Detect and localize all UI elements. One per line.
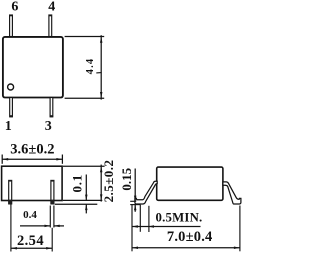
dimension 0.5MIN line and arrows [132,225,201,228]
lead right tip (front view) [51,200,55,205]
dimension 7.0±0.4 extension lines [132,205,240,252]
svg-text:7.0±0.4: 7.0±0.4 [167,229,213,245]
dimension 0.1 extension line body-bottom [63,199,102,201]
dimension 0.15 line and arrows [134,169,137,212]
dimension 7.0±0.4 line [132,246,240,249]
dimension 0.5MIN extension line (body corner) [148,206,150,232]
pin 6 lead (top view) [10,15,13,37]
dimension 3.6±0.2 line [2,155,62,164]
svg-text:3: 3 [45,119,52,134]
package body (side view) [157,167,223,200]
gull-wing lead left (side view) [135,181,157,204]
package body (top view) [3,37,63,98]
dimension 4.4 bottom extension line [65,97,105,99]
dimension 4.4 leader tick [96,72,101,74]
svg-text:4.4: 4.4 [85,58,96,75]
pin 3 lead (top view) [50,98,53,117]
lead right (front view) [51,180,54,204]
dimension 2.54 line [11,247,52,250]
dimension 0.1 line and arrows [85,175,88,214]
dimension 0.15 foot-bottom tick [130,204,140,206]
pin 4 lead (top view) [49,15,52,37]
dimension 0.5MIN extension line (bend start) [139,205,141,232]
svg-text:0.4: 0.4 [23,209,37,221]
pin 4 lead tip cap [49,15,52,17]
svg-text:1: 1 [5,119,12,134]
svg-text:0.1: 0.1 [70,174,85,192]
svg-text:6: 6 [11,0,18,15]
lead left top cap (front view) [9,180,12,182]
dimension 0.4 extension lines (lead edges) [50,206,54,228]
dimension 2.54 extension lines [11,204,52,252]
svg-text:3.6±0.2: 3.6±0.2 [10,141,54,157]
dimension 2.5±0.2 line [100,165,103,202]
pin 1 index mark [8,84,14,90]
package body (front view) [2,166,63,200]
dimension 2.5±0.2 top extension line [63,165,105,167]
svg-text:0.15: 0.15 [119,167,134,190]
dimension 0.4 line and arrows [20,225,64,228]
pin 3 lead tip cap [50,115,53,117]
dimension 4.4 top extension line [65,36,105,38]
lead left tip (front view) [8,200,12,205]
gull-wing lead right (side view) [223,182,241,204]
pin 6 lead tip cap [9,15,12,17]
lead left (front view) [9,180,12,204]
dimension 0.15 foot-top tick [130,200,136,202]
dimension 4.4 line [100,35,103,99]
lead right top cap (front view) [51,180,54,182]
svg-text:2.54: 2.54 [17,233,44,249]
svg-text:4: 4 [48,0,55,15]
dimension 0.1 extension line lead-tip [55,203,98,205]
svg-text:0.5MIN.: 0.5MIN. [156,211,203,225]
svg-text:2.5±0.2: 2.5±0.2 [101,160,116,203]
pin 1 lead tip cap [9,115,12,117]
pin 1 lead (top view) [10,98,13,117]
